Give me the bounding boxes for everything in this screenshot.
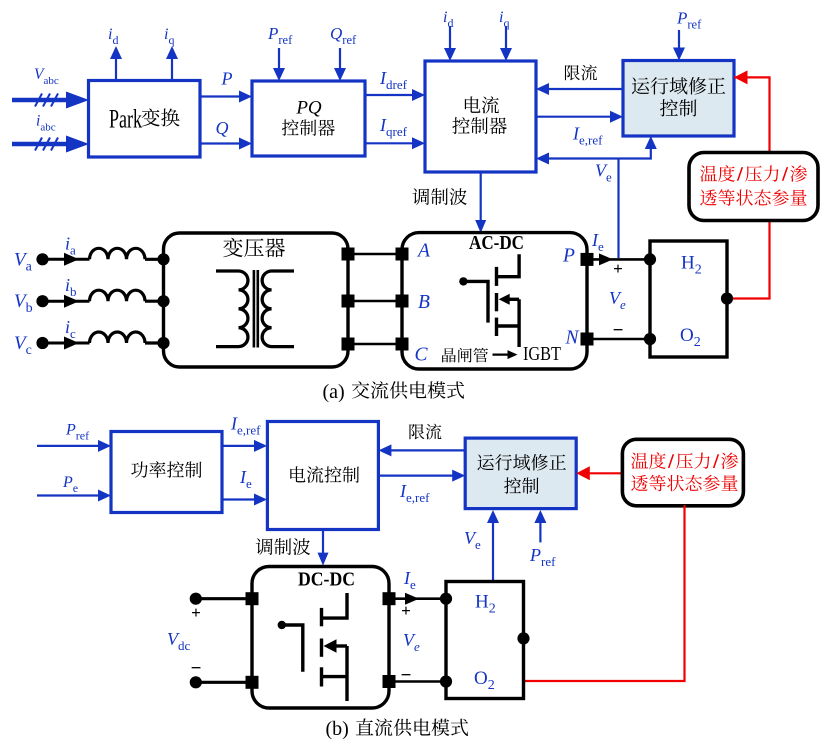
label H2 b [475, 592, 496, 617]
label Ve b [464, 528, 481, 552]
svg-text:ib: ib [65, 275, 77, 299]
svg-text:Ve: Ve [595, 161, 612, 185]
svg-text:Ie: Ie [591, 230, 604, 254]
block operating domain b [465, 438, 576, 509]
block DC-DC converter [252, 567, 389, 709]
svg-text:Vb: Vb [14, 291, 33, 316]
terminal P [581, 253, 594, 266]
wire Q [200, 138, 252, 150]
svg-text:iabc: iabc [36, 113, 56, 134]
svg-text:iq: iq [164, 26, 174, 47]
label Ie b2 [403, 568, 416, 592]
svg-text:Pref: Pref [65, 422, 89, 443]
wire Ve vertical [617, 159, 619, 259]
label Q [216, 118, 229, 138]
wire Ie out b [389, 593, 452, 605]
svg-text:Ve: Ve [609, 288, 626, 312]
label iq out [164, 26, 174, 47]
wire Iqref [365, 137, 425, 149]
transistor Q2 MOSFET [278, 593, 347, 701]
svg-text:P: P [221, 69, 233, 89]
wire out bottom b [389, 675, 452, 687]
label Idref [379, 68, 408, 92]
wire Lc to transformer [145, 337, 170, 349]
label P [562, 246, 575, 267]
block electrolyzer b [446, 582, 524, 699]
wire xianliu b [378, 444, 465, 456]
label O2 b [474, 668, 495, 693]
svg-text:(b): (b) [326, 718, 349, 740]
svg-text:Pref: Pref [676, 9, 702, 32]
svg-text:Ie: Ie [239, 467, 252, 491]
wire tiaozhibo b [318, 530, 329, 566]
box temperature state a [689, 153, 818, 221]
svg-text:N: N [565, 328, 580, 349]
junction transformer out A [342, 248, 409, 261]
label ic [65, 317, 76, 341]
wire Ie to U4 [536, 111, 623, 123]
label temp state b [631, 452, 738, 491]
label minus b [401, 665, 412, 686]
label dianliu kongzhi b [290, 466, 359, 483]
wire Idref [365, 89, 425, 101]
bus input iabc [12, 136, 89, 153]
label Vabc [34, 66, 59, 87]
inductor La [90, 248, 146, 259]
svg-text:O2: O2 [680, 325, 701, 350]
label DC-DC [298, 569, 355, 591]
label A [416, 241, 430, 262]
caption b [326, 718, 469, 740]
label Vb [14, 291, 33, 316]
svg-text:(a): (a) [323, 381, 345, 403]
wire id in [444, 26, 456, 61]
label plus dc [191, 603, 201, 622]
svg-text:−: − [191, 658, 202, 679]
label O2 a [680, 325, 701, 350]
block U2 PQ controller [252, 81, 365, 156]
wire Ve feedback [536, 136, 657, 165]
source Va terminal [36, 253, 89, 266]
svg-text:DC-DC: DC-DC [298, 569, 355, 591]
svg-text:+: + [613, 259, 623, 278]
wire id out [110, 46, 122, 80]
svg-text:Idref: Idref [379, 68, 408, 92]
wire red sense b [576, 466, 622, 480]
svg-text:O2: O2 [474, 668, 495, 693]
junction DCDC in bottom [246, 676, 259, 689]
block transformer [164, 233, 349, 367]
label id out [108, 26, 118, 47]
terminal DCDC out bottom [383, 675, 396, 688]
svg-text:Iqref: Iqref [379, 115, 408, 139]
svg-text:H2: H2 [681, 253, 702, 278]
svg-text:A: A [416, 241, 430, 262]
label Iqref [379, 115, 408, 139]
label yunxingyu xiuzheng kongzhi [632, 77, 725, 116]
svg-text:Ie: Ie [403, 568, 416, 592]
label Ieref a [572, 124, 603, 148]
wire Ie b1 [222, 494, 267, 506]
label tiaozhibo b [256, 538, 311, 555]
svg-text:Vc: Vc [14, 333, 32, 358]
wire Ieref b2 [378, 470, 465, 482]
label H2 a [681, 253, 702, 278]
label B [418, 292, 430, 313]
label minus a [613, 320, 624, 341]
label Vc [14, 333, 32, 358]
terminal Vdc plus [190, 593, 252, 605]
svg-text:−: − [401, 665, 412, 686]
wire P [200, 91, 252, 103]
label id in [443, 9, 453, 30]
label bianyaqi [223, 238, 285, 258]
wire La to transformer [145, 253, 170, 265]
label AC-DC [469, 232, 524, 254]
svg-text:+: + [401, 601, 411, 620]
wire red from stack a [727, 221, 770, 299]
label Ieref b2 [399, 481, 430, 505]
wire Pref top [673, 30, 685, 61]
label dianliu kongzhiqi [452, 96, 507, 134]
svg-text:Pref: Pref [529, 545, 556, 569]
wire xianliu limit [536, 83, 623, 95]
label Pref b [65, 422, 89, 443]
junction DCDC in top [246, 592, 259, 605]
label Qref [330, 24, 357, 47]
label ia [65, 233, 76, 257]
terminal Vdc minus [190, 676, 252, 688]
label Va [14, 249, 33, 274]
label plus b [401, 601, 411, 620]
wire Qref in [334, 48, 346, 81]
label gonglv kongzhi [131, 461, 201, 478]
svg-text:Qref: Qref [330, 24, 357, 47]
block electrolyzer a [650, 241, 727, 357]
block U1 Park transform [89, 81, 201, 158]
wire P to stack [587, 253, 656, 265]
svg-text:ic: ic [65, 317, 76, 341]
wire Pe b [37, 490, 111, 502]
junction transformer out C [342, 338, 409, 351]
transformer T1 symbol [216, 270, 294, 348]
label xianliu [565, 65, 597, 81]
svg-text:H2: H2 [475, 592, 496, 617]
label iabc [36, 113, 56, 134]
label minus dc [191, 658, 202, 679]
block U3 current controller [425, 61, 536, 172]
svg-text:Park: Park [109, 105, 142, 134]
block power control [111, 432, 222, 513]
wire N to stack [587, 333, 656, 345]
wire Pref up b [534, 510, 546, 542]
terminal N [581, 333, 594, 346]
svg-text:Vdc: Vdc [167, 629, 191, 653]
label yunxingyu b [477, 454, 566, 494]
svg-text:Ie,ref: Ie,ref [572, 124, 603, 148]
label Vdc [167, 629, 191, 653]
junction transformer out B [342, 295, 409, 308]
svg-text:Pref: Pref [267, 24, 293, 47]
label Pref [267, 24, 293, 47]
svg-text:iq: iq [499, 9, 509, 30]
svg-text:id: id [443, 9, 453, 30]
wire Pref in [273, 48, 285, 81]
wire iq in [500, 26, 512, 61]
wire Ve up b [487, 510, 499, 582]
label plus a [613, 259, 623, 278]
wire Ieref b1 [222, 440, 267, 452]
label iq in [499, 9, 509, 30]
svg-text:B: B [418, 292, 430, 313]
svg-text:Q: Q [216, 118, 229, 138]
svg-text:Vabc: Vabc [34, 66, 59, 87]
label temp state a [700, 165, 807, 206]
wire Pref b [37, 440, 111, 452]
junction stack right b [517, 632, 529, 644]
wire red sense a [734, 70, 770, 152]
caption a [323, 381, 465, 403]
label Ve b2 [403, 630, 420, 654]
inductor Lb [90, 290, 146, 301]
svg-text:IGBT: IGBT [523, 343, 561, 365]
svg-text:AC-DC: AC-DC [469, 232, 524, 254]
label C [415, 345, 429, 366]
label Pref top [676, 9, 702, 32]
svg-text:Ie,ref: Ie,ref [399, 481, 430, 505]
label ib [65, 275, 77, 299]
svg-text:−: − [613, 320, 624, 341]
label jingzhaguan IGBT [442, 343, 561, 365]
label Ie b1 [239, 467, 252, 491]
svg-text:Ve: Ve [464, 528, 481, 552]
svg-text:P: P [562, 246, 575, 267]
svg-text:id: id [108, 26, 118, 47]
svg-text:Va: Va [14, 249, 33, 274]
wire tiaozhibo a [475, 172, 486, 233]
transistor Q1 MOSFET [459, 254, 519, 347]
label Park bianhuan [109, 105, 180, 134]
wire Lb to transformer [145, 295, 170, 307]
block U4 operating domain correction [623, 61, 734, 137]
svg-text:ia: ia [65, 233, 76, 257]
inductor Lc [90, 332, 146, 343]
svg-text:+: + [191, 603, 201, 622]
svg-text:PQ: PQ [295, 98, 322, 119]
junction stack sense a [721, 292, 733, 304]
box temperature state b [622, 439, 743, 506]
terminal DCDC out top [383, 592, 396, 605]
svg-text:Ve: Ve [403, 630, 420, 654]
label Ieref b1 [230, 414, 261, 438]
label xianliu b [409, 424, 441, 440]
bus input Vabc [12, 92, 89, 109]
label N [565, 328, 580, 349]
block current control [267, 422, 378, 530]
label Pref b2 [529, 545, 556, 569]
svg-text:Ie,ref: Ie,ref [230, 414, 261, 438]
svg-text:Pe: Pe [62, 474, 78, 495]
source Vb terminal [36, 295, 89, 308]
label Pe b [62, 474, 78, 495]
wire iq out [166, 46, 178, 80]
label Ve stack a [609, 288, 626, 312]
label tiaozhibo a [412, 188, 467, 205]
label Ie a [591, 230, 604, 254]
wire red from stack b [524, 505, 685, 681]
label Ve a [595, 161, 612, 185]
svg-text:C: C [415, 345, 429, 366]
label P [221, 69, 233, 89]
block AC-DC converter [402, 233, 587, 369]
source Vc terminal [36, 337, 89, 350]
label PQ [282, 98, 335, 136]
